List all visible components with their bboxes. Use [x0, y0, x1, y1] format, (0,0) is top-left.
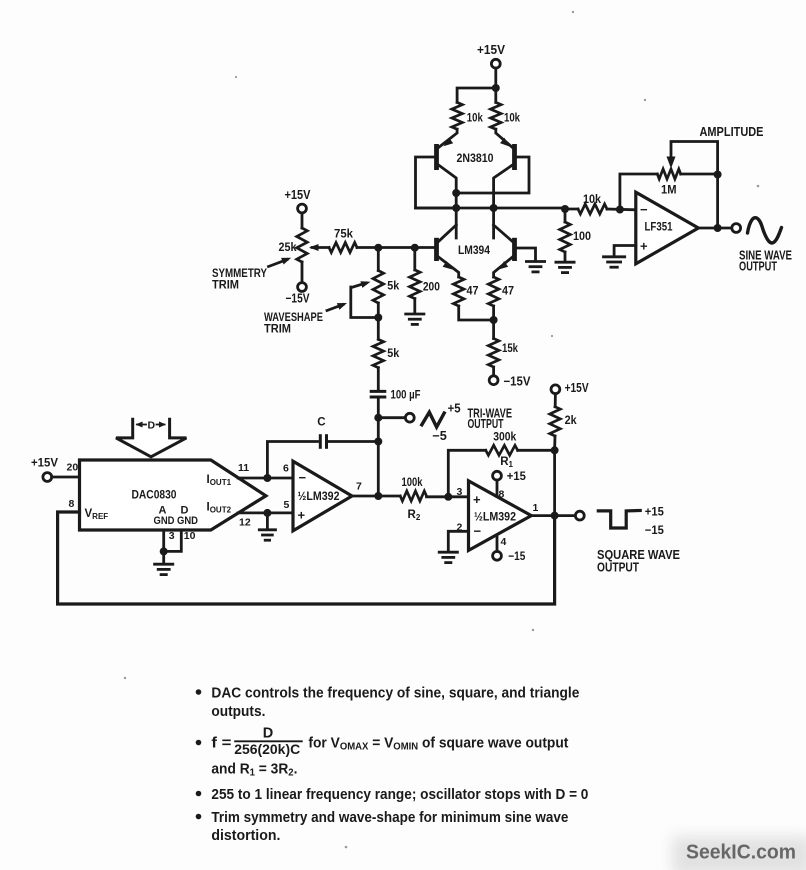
wire Q2a collector — [439, 225, 457, 242]
op-amp U2 half-LM392 — [469, 481, 532, 551]
label WAVESHAPE TRIM — [264, 310, 323, 336]
svg-text:4: 4 — [501, 536, 507, 548]
label U1 halfLM392 — [298, 491, 340, 503]
power +15V terminal (top) — [477, 43, 506, 68]
node triwave tap — [374, 414, 382, 422]
svg-text:6: 6 — [283, 463, 289, 475]
node rail 100ohm tap — [561, 205, 569, 213]
wire top split to left branch — [457, 88, 496, 102]
label U1 plus — [298, 508, 306, 523]
label 2N3810 — [457, 151, 494, 165]
svg-text:1: 1 — [533, 502, 539, 514]
wire C feedback right — [327, 440, 379, 443]
wire 1M right leg — [681, 173, 718, 176]
wire C feedback left — [267, 442, 317, 479]
wire R1 right leg — [518, 449, 555, 452]
label pin8 — [499, 489, 505, 501]
svg-text:8: 8 — [69, 498, 75, 510]
ground LM392a +input — [258, 530, 277, 540]
node pin7 junction — [374, 492, 382, 500]
power +15 terminal (pin8) — [493, 469, 527, 483]
resistor 47 right — [488, 277, 514, 306]
svg-text:256(20k)C: 256(20k)C — [234, 741, 300, 757]
node comparator +in — [444, 493, 452, 501]
node 1M right — [714, 171, 722, 179]
svg-text:+: + — [473, 492, 481, 507]
wire 25k wiper — [309, 244, 329, 251]
svg-text:−15: −15 — [645, 523, 664, 537]
wire DAC gnd pin10 — [164, 530, 196, 551]
resistor 15k — [488, 339, 518, 368]
svg-text:+: + — [298, 508, 306, 523]
label U3 plus — [640, 239, 648, 254]
wire U3 output — [698, 227, 731, 230]
label pin3 — [457, 486, 463, 498]
watermark background — [672, 836, 806, 870]
label DAC0830 — [132, 488, 177, 502]
svg-text:−5: −5 — [432, 429, 447, 443]
text specks (scan noise) — [124, 11, 760, 849]
wire DAC gnd stem — [162, 551, 165, 563]
svg-text:+15V: +15V — [565, 381, 590, 395]
svg-text:DAC0830: DAC0830 — [132, 488, 177, 502]
svg-text:and R1 = 3R2.: and R1 = 3R2. — [211, 762, 297, 779]
node square node — [551, 512, 559, 520]
wire 15k to -15V — [492, 367, 495, 376]
label -5 — [432, 429, 447, 443]
svg-text:distortion.: distortion. — [211, 828, 280, 844]
wire feedback loop — [58, 512, 555, 604]
svg-text:100: 100 — [573, 229, 591, 243]
wire Q2a emitter — [439, 257, 459, 277]
transistor Q2b LM394 right bar — [512, 238, 517, 261]
label pin7 — [356, 481, 362, 493]
resistor 5k lower — [373, 318, 400, 368]
label pin11 — [238, 462, 249, 474]
svg-text:−: − — [640, 202, 648, 217]
svg-text:−15V: −15V — [286, 292, 311, 306]
svg-text:−: − — [474, 524, 482, 539]
wire 5k to cap — [377, 368, 380, 390]
label pin4 — [501, 536, 507, 548]
label AMPLITUDE — [700, 125, 764, 139]
wire waveshape pointer — [327, 303, 347, 311]
svg-text:100k: 100k — [402, 475, 423, 489]
wire Q1b base loop — [456, 157, 529, 193]
wire base rail — [357, 246, 435, 249]
wire Q2b base to ground — [517, 248, 536, 261]
wire pin4 stem — [496, 535, 499, 551]
svg-text:OUTPUT: OUTPUT — [739, 260, 777, 274]
ground U2 -input — [438, 552, 459, 562]
label A D GND GND — [154, 505, 199, 528]
label pin8 — [69, 498, 75, 510]
wire 47s join — [459, 306, 494, 339]
terminal sine output — [732, 224, 741, 233]
svg-text:10: 10 — [184, 530, 196, 542]
wire down to pin7 — [377, 442, 380, 497]
node LF351 -in — [616, 206, 624, 214]
svg-text:12: 12 — [239, 517, 251, 529]
label TRI-WAVE OUTPUT — [468, 407, 513, 432]
wire Q2b emitter — [494, 257, 513, 277]
label SQUARE WAVE OUTPUT — [597, 548, 680, 575]
label U1 minus — [299, 470, 307, 485]
svg-text:+15: +15 — [645, 505, 664, 519]
node cross-couple — [452, 189, 460, 197]
wire pin7 output — [352, 495, 400, 498]
label IOUT2 — [207, 502, 232, 515]
wire 1M left leg — [620, 174, 657, 210]
node DAC gnd join — [160, 547, 168, 555]
svg-text:255 to 1 linear frequency rang: 255 to 1 linear frequency range; oscilla… — [211, 787, 588, 803]
node pin12 junction — [263, 509, 271, 517]
svg-text:LF351: LF351 — [645, 220, 673, 234]
power -15V terminal (pot) — [286, 283, 311, 306]
resistor 10k input — [578, 192, 607, 214]
wire Q2b collector — [494, 225, 513, 242]
node emitter junction — [490, 316, 498, 324]
svg-text:D: D — [148, 420, 156, 432]
label U2 plus — [473, 492, 481, 507]
wire triwave stub — [378, 416, 405, 419]
svg-text:TRIM: TRIM — [212, 278, 239, 292]
node pin11 junction — [263, 474, 271, 482]
svg-text:47: 47 — [502, 284, 514, 298]
svg-text:+5: +5 — [448, 402, 461, 416]
trimmer 5k WAVESHAPE — [373, 248, 400, 317]
svg-text:10k: 10k — [467, 111, 483, 125]
svg-text:15k: 15k — [502, 341, 518, 355]
wire U3 plus gnd — [614, 246, 636, 257]
resistor R-10k left — [452, 102, 483, 129]
svg-text:+: + — [640, 239, 648, 254]
svg-text:f =: f = — [211, 736, 231, 752]
svg-text:−15: −15 — [508, 549, 525, 563]
svg-text:D: D — [263, 726, 273, 742]
wire 2k node down — [553, 450, 556, 515]
wire DAC gnd pin3 — [164, 530, 175, 551]
potentiometer 25k SYMMETRY — [279, 213, 308, 283]
wire pin1 output — [531, 514, 575, 517]
label U3 minus — [640, 202, 648, 217]
power +15V terminal (2k) — [551, 381, 589, 395]
svg-text:100 µF: 100 µF — [391, 388, 421, 402]
wire Q1a collector — [439, 165, 457, 238]
svg-text:75k: 75k — [334, 227, 353, 241]
node 5k-trim tap — [374, 244, 382, 252]
node R1-2k junction — [551, 446, 559, 454]
svg-text:3: 3 — [169, 530, 175, 542]
node 5k bottom junction — [374, 314, 382, 322]
svg-text:OUTPUT: OUTPUT — [597, 561, 639, 575]
svg-text:2N3810: 2N3810 — [457, 151, 494, 165]
wire +15V stem — [494, 68, 497, 88]
terminal tri-wave output — [405, 413, 414, 422]
wire pin20 — [52, 462, 80, 478]
watermark SeekIC.com — [686, 841, 796, 864]
svg-text:5k: 5k — [387, 279, 399, 293]
transistor Q2a LM394 left bar — [434, 238, 439, 261]
op-amp U1 half-LM392 — [293, 461, 352, 531]
resistor R-10k right — [491, 102, 521, 129]
label LM394 — [458, 243, 490, 257]
node output junction — [714, 224, 722, 232]
svg-text:20: 20 — [67, 462, 79, 474]
power -15V terminal (15k) — [489, 375, 531, 389]
transistor Q1b 2N3810 right bar — [512, 144, 517, 170]
op-amp U3 LF351 — [636, 192, 699, 264]
node rail right — [490, 204, 498, 212]
svg-text:DAC controls the frequency of: DAC controls the frequency of sine, squa… — [211, 686, 579, 702]
wire symmetry pointer — [269, 258, 292, 267]
resistor 300k R1 — [486, 430, 518, 470]
wire 1M to output node — [716, 175, 719, 229]
wire pin2 gnd — [448, 531, 468, 551]
svg-text:10k: 10k — [583, 192, 601, 206]
wire pin11 net — [238, 477, 293, 480]
wire R1 left leg — [448, 450, 485, 497]
svg-text:−15V: −15V — [504, 375, 532, 389]
svg-text:47: 47 — [467, 284, 479, 298]
svg-text:+15: +15 — [507, 469, 526, 483]
svg-text:AMPLITUDE: AMPLITUDE — [700, 125, 764, 139]
ground U3 +input — [602, 257, 626, 267]
label LF351 — [645, 220, 673, 234]
wire Q1b emitter — [496, 129, 513, 147]
svg-text:GND: GND — [154, 515, 175, 527]
capacitor C — [317, 417, 326, 449]
svg-text:1M: 1M — [661, 183, 677, 197]
ground 100ohm — [555, 262, 576, 272]
resistor 2k — [550, 394, 577, 451]
wire right branch stem — [494, 88, 497, 102]
resistor 75k — [329, 227, 357, 253]
node rail left — [452, 204, 460, 212]
svg-text:LM394: LM394 — [458, 243, 490, 257]
waveform square glyph — [598, 511, 640, 529]
ground 200ohm — [404, 314, 425, 324]
label +5 — [448, 402, 461, 416]
label U2 minus — [474, 524, 482, 539]
svg-text:+15V: +15V — [477, 43, 506, 57]
ground DAC — [153, 564, 174, 574]
power -15 terminal (pin4) — [493, 549, 526, 563]
label SYMMETRY TRIM — [212, 266, 267, 292]
wire Q1a base loop — [416, 157, 457, 208]
ic DAC0830 body — [80, 460, 266, 530]
svg-text:Trim symmetry and wave-shape f: Trim symmetry and wave-shape for minimum… — [211, 810, 568, 826]
svg-text:5k: 5k — [387, 346, 399, 360]
label IOUT1 — [207, 474, 232, 487]
svg-text:25k: 25k — [279, 240, 297, 254]
label SINE WAVE OUTPUT — [739, 249, 792, 274]
power +15V terminal (pot) — [285, 188, 312, 213]
wire 10k to minus — [607, 208, 636, 212]
text circuit notes — [196, 686, 589, 845]
data input arrow D — [116, 418, 186, 457]
label pin2 — [457, 522, 463, 534]
wire Q1a emitter — [439, 129, 458, 147]
label U2 halfLM392 — [474, 512, 516, 524]
wire 100k to comparator — [427, 495, 469, 498]
resistor 100 shunt — [560, 209, 592, 262]
svg-text:SeekIC.com: SeekIC.com — [686, 841, 796, 864]
wire cap to triwave node — [377, 397, 380, 442]
svg-text:TRIM: TRIM — [264, 322, 291, 336]
wire pin12 net — [238, 512, 293, 515]
label +15 square — [645, 505, 664, 519]
svg-text:GND: GND — [177, 515, 198, 527]
wire pin8 stem — [496, 480, 499, 496]
svg-text:+15V: +15V — [285, 188, 312, 202]
wire Q1b collector — [494, 165, 513, 238]
transistor Q1a 2N3810 left bar — [434, 144, 439, 170]
waveform sine glyph — [748, 218, 782, 243]
resistor 100k R2 — [400, 475, 426, 522]
node 200ohm tap — [411, 244, 419, 252]
label pin1 — [533, 502, 539, 514]
svg-text:7: 7 — [356, 481, 362, 493]
label -15 square — [645, 523, 664, 537]
label D arrows — [136, 420, 167, 432]
svg-text:−: − — [299, 470, 307, 485]
svg-text:8: 8 — [499, 489, 505, 501]
label pin5 — [284, 499, 290, 511]
terminal square output — [575, 511, 584, 520]
svg-text:C: C — [317, 417, 325, 429]
wire amplitude wiper — [667, 142, 718, 175]
svg-text:200: 200 — [423, 280, 440, 294]
svg-text:10k: 10k — [504, 111, 520, 125]
svg-text:5: 5 — [284, 499, 290, 511]
node C-cap junction — [374, 438, 382, 446]
label VREF — [85, 508, 109, 521]
svg-text:300k: 300k — [493, 430, 516, 444]
capacitor 100uF — [370, 388, 421, 402]
svg-text:½LM392: ½LM392 — [298, 491, 340, 503]
svg-text:outputs.: outputs. — [211, 704, 265, 720]
power +15V terminal (DAC) — [31, 456, 58, 482]
wire collector rail — [416, 208, 579, 209]
ground Q2b base — [525, 262, 546, 272]
resistor 200 — [410, 248, 441, 314]
wire pin5 gnd stem — [266, 513, 269, 529]
svg-text:+15V: +15V — [31, 456, 58, 470]
wire 5k wiper bracket — [351, 281, 379, 317]
label pin12 — [239, 517, 251, 529]
svg-text:11: 11 — [238, 462, 249, 474]
waveform triangle glyph — [422, 412, 444, 427]
node junction top — [492, 84, 500, 92]
svg-text:½LM392: ½LM392 — [474, 512, 516, 524]
svg-text:2k: 2k — [565, 413, 577, 427]
potentiometer 1M — [657, 169, 680, 197]
svg-text:3: 3 — [457, 486, 463, 498]
resistor 47 left — [453, 277, 478, 306]
label pin6 — [283, 463, 289, 475]
